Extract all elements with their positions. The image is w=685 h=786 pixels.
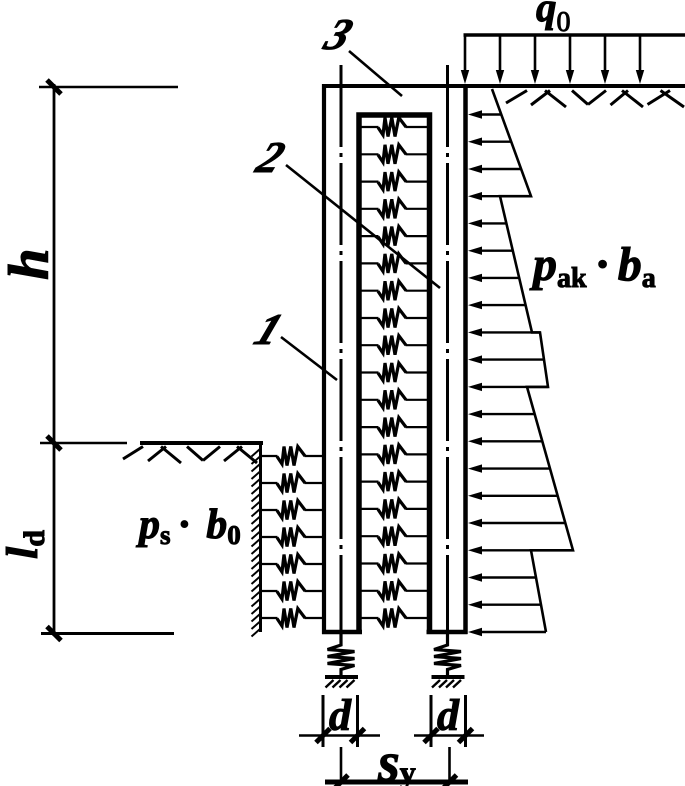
tick at excavation level [40,442,127,445]
arrow: q0 down arrow 5 [604,35,607,72]
svg-text:d: d [329,691,352,740]
arrow: earth pressure arrow 17 [478,549,573,551]
arrow: earth pressure arrow 10 [478,358,544,360]
ground: fixed support under rear pile [432,675,465,679]
arrow: earth pressure arrow 9 [478,331,540,333]
arrow: q0 down arrow 2 [499,35,502,72]
dimension d of rear pile [430,695,433,747]
arrow: q0 down arrow 4 [569,35,572,72]
spring: passive soil spring L3 [277,501,305,520]
arrow: earth pressure arrow 1 [478,113,501,115]
svg-text:h: h [0,248,61,280]
spring: passive soil spring L5 [277,555,305,574]
pile 1 bottom [322,630,362,635]
arrow: earth pressure arrow 15 [478,495,558,497]
spring: inter-pile soil spring M19 [378,609,406,628]
spring: inter-pile soil spring M2 [378,145,406,164]
pile row 2 wall face (right edge) [463,84,468,634]
spring: inter-pile soil spring M8 [378,309,406,328]
spring: inter-pile soil spring M16 [378,527,406,546]
dimension d of front pile [322,695,325,747]
dimension oblique tick at y=87 [47,80,61,94]
pressure envelope pak.ba [492,89,573,632]
spring: inter-pile soil spring M14 [378,472,406,491]
arrow: q0 down arrow 3 [534,35,537,72]
svg-text:pak · ba: pak · ba [529,238,656,294]
pile 2 bottom [427,630,468,635]
arrow: earth pressure arrow 6 [478,249,513,251]
ground: fixed support under front pile [325,675,358,679]
arrow: earth pressure arrow 11 [478,386,548,388]
arrow: earth pressure arrow 14 [478,467,550,469]
arrow: q0 down arrow 1 [464,35,467,72]
ground hatch (right of wall) [506,91,684,108]
spring: inter-pile soil spring M1 [378,118,406,137]
spring: inter-pile soil spring M11 [378,390,406,409]
spring: passive soil spring L2 [277,474,305,493]
dimension line h + ld (vertical) [53,84,56,636]
arrow: earth pressure arrow 12 [478,413,535,415]
arrow: earth pressure arrow 16 [478,522,565,524]
spring: inter-pile soil spring M13 [378,445,406,464]
passive soil boundary (hatched wall) [259,443,262,632]
spring: inter-pile soil spring M17 [378,554,406,573]
arrow: earth pressure arrow 19 [478,604,541,606]
spring: inter-pile soil spring M5 [378,227,406,246]
spring: inter-pile soil spring M4 [378,199,406,218]
spring: inter-pile soil spring M3 [378,172,406,191]
spring: inter-pile soil spring M18 [378,581,406,600]
spring: passive soil spring L7 [277,609,305,628]
arrow: earth pressure arrow 7 [478,277,519,279]
spring: inter-pile soil spring M12 [378,418,406,437]
centerline pile 1 (dash-dot) [340,65,343,634]
spring: passive soil spring L6 [277,582,305,601]
tick at pile base [41,632,174,635]
centerline pile 2 (dash-dot) [446,65,449,634]
arrow: earth pressure arrow 8 [478,304,526,306]
soil spring box frame [359,115,430,634]
spring: base spring under rear pile [434,634,461,677]
spring: inter-pile soil spring M7 [378,281,406,300]
arrow: earth pressure arrow 13 [478,440,542,442]
arrow: earth pressure arrow 5 [478,222,506,224]
ground hatch (excavation side) [123,447,257,464]
arrow: q0 down arrow 6 [639,35,642,72]
spring: inter-pile soil spring M15 [378,499,406,518]
wire: ground surface and wall top line [322,84,685,88]
wire: excavation ground line (left) [140,441,263,445]
load q0 distributed surcharge line [464,33,685,37]
dimension oblique tick at y=443 [47,436,61,450]
tick at wall top [39,86,178,89]
spring: passive soil spring L1 [277,447,305,466]
dimension sy (pile row spacing) [340,747,343,783]
pile 1 (front row) left edge [322,84,326,634]
spring: inter-pile soil spring M9 [378,336,406,355]
arrow: earth pressure arrow 2 [478,140,511,142]
spring: passive soil spring L4 [277,528,305,547]
svg-text:d: d [437,691,460,740]
spring: inter-pile soil spring M10 [378,363,406,382]
spring: inter-pile soil spring M6 [378,254,406,273]
svg-text:ps · b0: ps · b0 [136,502,241,550]
dimension oblique tick at y=633.5 [47,627,61,641]
arrow: earth pressure arrow 20 [478,631,546,633]
spring: base spring under front pile [328,634,355,677]
arrow: earth pressure arrow 3 [478,168,521,170]
arrow: earth pressure arrow 4 [478,195,531,197]
arrow: earth pressure arrow 18 [478,576,536,578]
